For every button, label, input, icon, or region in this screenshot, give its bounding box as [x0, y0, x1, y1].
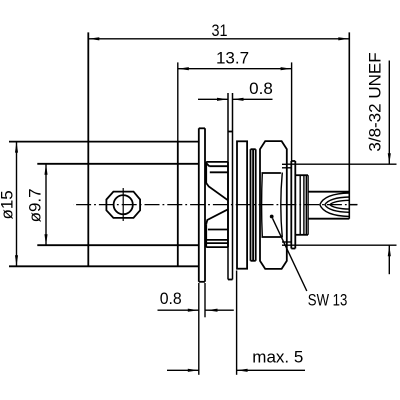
svg-text:0.8: 0.8 — [249, 79, 273, 98]
svg-text:0.8: 0.8 — [160, 289, 182, 308]
svg-text:SW 13: SW 13 — [308, 291, 348, 310]
svg-text:13.7: 13.7 — [216, 48, 249, 67]
svg-text:31: 31 — [212, 21, 228, 40]
svg-text:3/8-32 UNEF: 3/8-32 UNEF — [366, 52, 385, 151]
svg-text:max. 5: max. 5 — [252, 347, 303, 366]
svg-text:ø9.7: ø9.7 — [25, 188, 44, 222]
svg-text:ø15: ø15 — [0, 190, 17, 219]
